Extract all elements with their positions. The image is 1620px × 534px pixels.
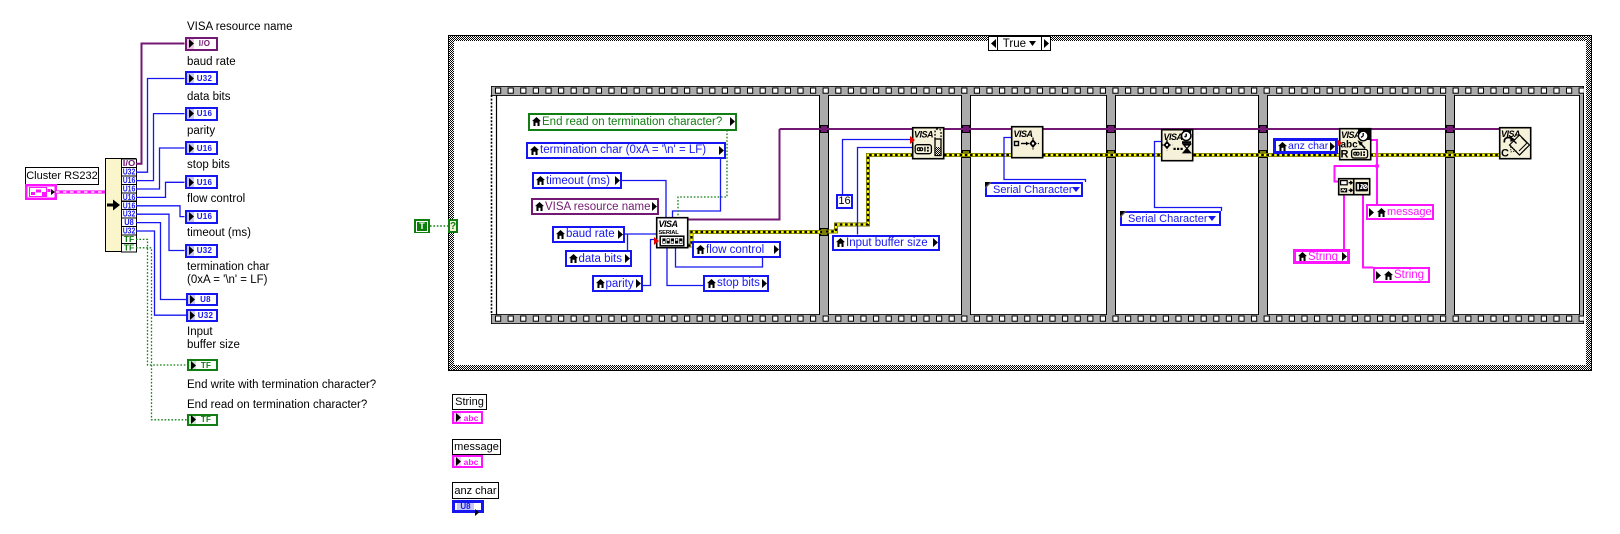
wire timeout to VISA Configure [622, 181, 666, 218]
local variable baud rate [552, 226, 625, 244]
wire flow control from VISA Configure [676, 248, 763, 267]
sequence frame divider bar 1 [819, 95, 829, 315]
boolean constant True (T) [414, 219, 430, 233]
indicator terminal End read TF [187, 414, 218, 427]
label flow control [187, 193, 245, 206]
label VISA resource name [187, 21, 292, 34]
wire constant 16 to VISA Set Buffer Size [843, 140, 913, 195]
case structure border [448, 35, 1592, 371]
wire junction dot [1375, 164, 1379, 168]
local variable String (write) [1373, 267, 1430, 283]
sequence frame divider bar 5 [1445, 95, 1455, 315]
wire error cluster frame2 [826, 155, 912, 232]
indicator terminal input buffer size U32 [186, 309, 218, 322]
wire parity to VISA Configure [643, 240, 656, 286]
local variable message (write) [1366, 204, 1434, 220]
label parity [187, 125, 215, 138]
svg-text:R: R [1341, 149, 1349, 161]
local variable Input buffer size [832, 235, 940, 251]
wire VISA resource purple frame1 [688, 129, 780, 220]
wire parity to terminal [136, 148, 185, 189]
label Cluster RS232 [25, 167, 99, 185]
local variable parity [592, 275, 643, 292]
wire termination char to VISA Configure [673, 158, 721, 217]
flat sequence right border [1579, 95, 1585, 315]
indicator terminal End write TF [187, 359, 218, 372]
wire Serial Character ring to VISA Enable Event [1004, 138, 1086, 183]
numeric control terminal anz char (U8) [452, 500, 484, 513]
local variable End read on termination character? (boolean) [528, 113, 737, 131]
wire Input buffer size local to VISA Set Buffer Size [858, 148, 913, 235]
wire tunnel square (error) at x=966 [962, 150, 970, 158]
indicator terminal termination char U8 [186, 293, 218, 306]
wire tunnel square (VISA) at x=1263 [1259, 125, 1267, 133]
string control terminal message (abc) [452, 455, 483, 468]
indicator terminal flow control U16 [185, 210, 218, 224]
indicator terminal baud rate U32 [185, 71, 218, 85]
case selector label True [988, 36, 1051, 51]
local variable String (read) [1293, 249, 1350, 264]
wire tunnel square (VISA) at x=824 [820, 125, 828, 133]
flat sequence left border [490, 95, 498, 315]
breakpoint red arrow on VISA Configure [654, 237, 659, 245]
svg-text:VISA: VISA [914, 130, 933, 140]
VISA Configure Serial Port node [655, 216, 689, 249]
red error arrow on VISA Set Buffer Size [910, 136, 915, 144]
concatenate strings node [1337, 177, 1371, 196]
local variable stop bits [703, 275, 769, 292]
wire data bits to terminal [136, 114, 185, 181]
wire tunnel square (error) at x=824 [820, 228, 828, 236]
wire tunnel square (VISA) at x=966 [962, 125, 970, 133]
wire termination char to terminal [136, 223, 186, 300]
wire VISA Read string output to message [1371, 140, 1377, 204]
wire End read boolean to terminal [136, 248, 187, 420]
ring constant Serial Character (frame 3) [985, 182, 1083, 197]
svg-text:SERIAL: SERIAL [659, 230, 680, 236]
sequence frame divider bar 2 [961, 95, 971, 315]
case selector terminal ? [448, 219, 458, 233]
wire stop bits from VISA Configure [667, 248, 703, 286]
wire End read boolean to VISA Configure [678, 130, 727, 217]
wire tunnel square (VISA) at x=1450 [1446, 125, 1454, 133]
wire data bits join [627, 234, 629, 250]
wire End write boolean to terminal [136, 239, 187, 365]
local variable VISA resource name [531, 198, 659, 215]
wire error cluster frames 2-6 [944, 153, 1499, 157]
sequence frame divider bar 3 [1106, 95, 1116, 315]
flat sequence structure top film band [491, 86, 1584, 96]
flat sequence structure bottom film band [491, 314, 1584, 324]
unbundle output type cells [121, 158, 137, 254]
VISA Set I/O Buffer Size node [911, 126, 945, 160]
local variable flow control [692, 241, 781, 258]
wire cluster to unbundle [56, 188, 116, 196]
indicator terminal VISA resource name I/O [185, 37, 218, 51]
unbundle by name node body [104, 157, 137, 253]
numeric constant 16 [836, 194, 853, 209]
wire stop bits to terminal [136, 182, 185, 197]
svg-text:VISA: VISA [1341, 130, 1360, 140]
wire timeout to terminal [136, 214, 185, 250]
wire string branch to concatenate [1335, 166, 1378, 182]
wire error cluster frame1 [688, 232, 822, 246]
VISA Close node [1498, 126, 1532, 160]
wire String local to concatenate [1343, 195, 1345, 249]
wire tunnel square (VISA) at x=1111 [1107, 125, 1115, 133]
wire baud rate to VISA Configure [625, 233, 656, 235]
label baud rate [187, 56, 236, 69]
local variable data bits [565, 250, 632, 267]
wire tunnel square (error) at x=1450 [1446, 150, 1454, 158]
svg-text:VISA: VISA [659, 219, 678, 229]
local variable anz char [1273, 138, 1338, 154]
label anz char [452, 482, 499, 499]
label message [452, 439, 501, 455]
wire concatenate to String write local [1363, 195, 1373, 268]
label timeout (ms) [187, 227, 251, 240]
label termination char (0xA = '\n' = LF) [187, 261, 269, 287]
label End write with termination character? [187, 379, 376, 392]
wire tunnel square (error) at x=1111 [1107, 150, 1115, 158]
local variable timeout (ms) [532, 172, 622, 189]
label End read on termination character? [187, 399, 367, 412]
svg-text:VISA: VISA [1163, 132, 1182, 142]
VISA Wait on Event node [1160, 128, 1194, 162]
VISA Read node [1338, 127, 1372, 161]
red error arrow on VISA Read [1337, 139, 1342, 147]
label Input buffer size [187, 326, 240, 352]
wire tunnel square (error) at x=1263 [1259, 150, 1267, 158]
ring constant Serial Character (frame 4) [1120, 211, 1221, 226]
label data bits [187, 91, 230, 104]
wire VISA resource I/O to terminal [136, 44, 185, 164]
cluster terminal Cluster RS232 [25, 184, 57, 200]
wire baud rate to terminal [136, 79, 185, 173]
label String [452, 394, 487, 410]
svg-text:C: C [1501, 148, 1509, 160]
VISA Enable Event node [1010, 125, 1044, 159]
indicator terminal timeout U32 [185, 244, 218, 258]
local variable termination char (0xA = '\n' = LF) [526, 142, 726, 160]
sequence frame divider bar 4 [1258, 95, 1268, 315]
wire input buffer size to terminal [136, 231, 186, 315]
wire Serial Character ring to VISA Wait on Event [1155, 142, 1222, 212]
indicator terminal parity U16 [185, 141, 218, 155]
indicator terminal data bits U16 [185, 107, 218, 121]
indicator terminal stop bits U16 [185, 175, 218, 189]
wire True constant to case selector [430, 225, 448, 227]
wire VISA resource purple across frames [780, 128, 1500, 130]
wire flow control to terminal [136, 206, 185, 217]
string control terminal String (abc) [452, 411, 483, 424]
svg-text:VISA: VISA [1014, 129, 1033, 139]
label stop bits [187, 159, 230, 172]
